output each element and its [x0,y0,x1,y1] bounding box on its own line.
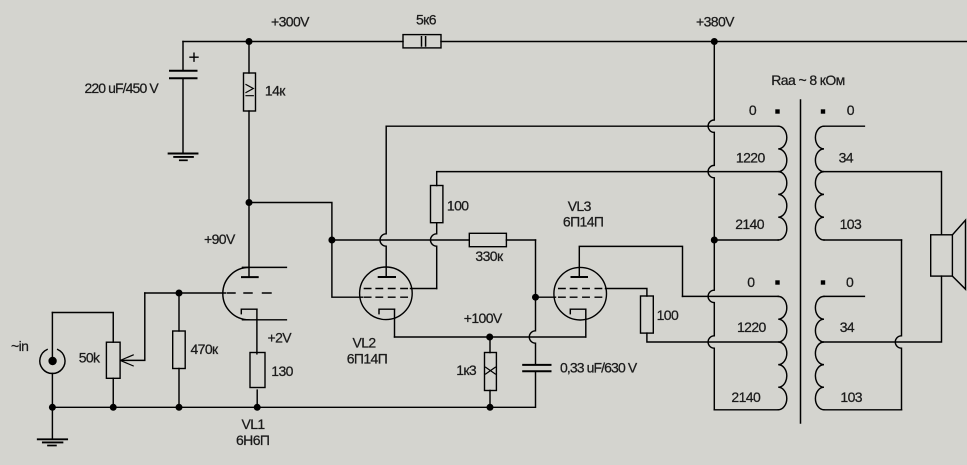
svg-text:6П14П: 6П14П [347,351,387,367]
svg-text:220 uF/450 V: 220 uF/450 V [85,80,160,96]
svg-text:+2V: +2V [268,330,293,346]
svg-text:34: 34 [839,149,854,165]
svg-text:0: 0 [846,274,854,290]
svg-text:2140: 2140 [735,216,765,232]
svg-text:1220: 1220 [737,319,767,335]
svg-text:~in: ~in [11,338,28,354]
svg-text:100: 100 [657,307,679,323]
svg-text:VL1: VL1 [242,416,266,432]
svg-text:1к3: 1к3 [456,362,477,378]
svg-text:6П14П: 6П14П [563,214,603,230]
svg-text:+100V: +100V [464,310,503,326]
svg-text:0,33 uF/630 V: 0,33 uF/630 V [560,360,638,376]
svg-text:VL3: VL3 [568,198,592,214]
svg-text:+90V: +90V [204,231,236,247]
svg-text:470к: 470к [191,341,220,357]
svg-text:103: 103 [840,389,862,405]
svg-text:0: 0 [747,274,755,290]
svg-text:2140: 2140 [731,389,761,405]
svg-text:Raa ~ 8 кОм: Raa ~ 8 кОм [771,72,844,88]
svg-text:6Н6П: 6Н6П [236,432,269,448]
svg-text:100: 100 [447,198,469,214]
svg-text:34: 34 [840,319,855,335]
svg-text:0: 0 [749,102,757,118]
svg-text:330к: 330к [475,248,504,264]
svg-text:5к6: 5к6 [416,11,437,27]
svg-text:+300V: +300V [271,14,310,30]
svg-text:VL2: VL2 [353,334,377,350]
svg-text:0: 0 [847,102,855,118]
svg-text:103: 103 [840,216,862,232]
svg-text:+380V: +380V [696,14,735,30]
svg-text:1220: 1220 [736,149,766,165]
svg-text:14к: 14к [265,83,286,99]
svg-text:50k: 50k [79,350,101,366]
svg-text:130: 130 [271,363,293,379]
